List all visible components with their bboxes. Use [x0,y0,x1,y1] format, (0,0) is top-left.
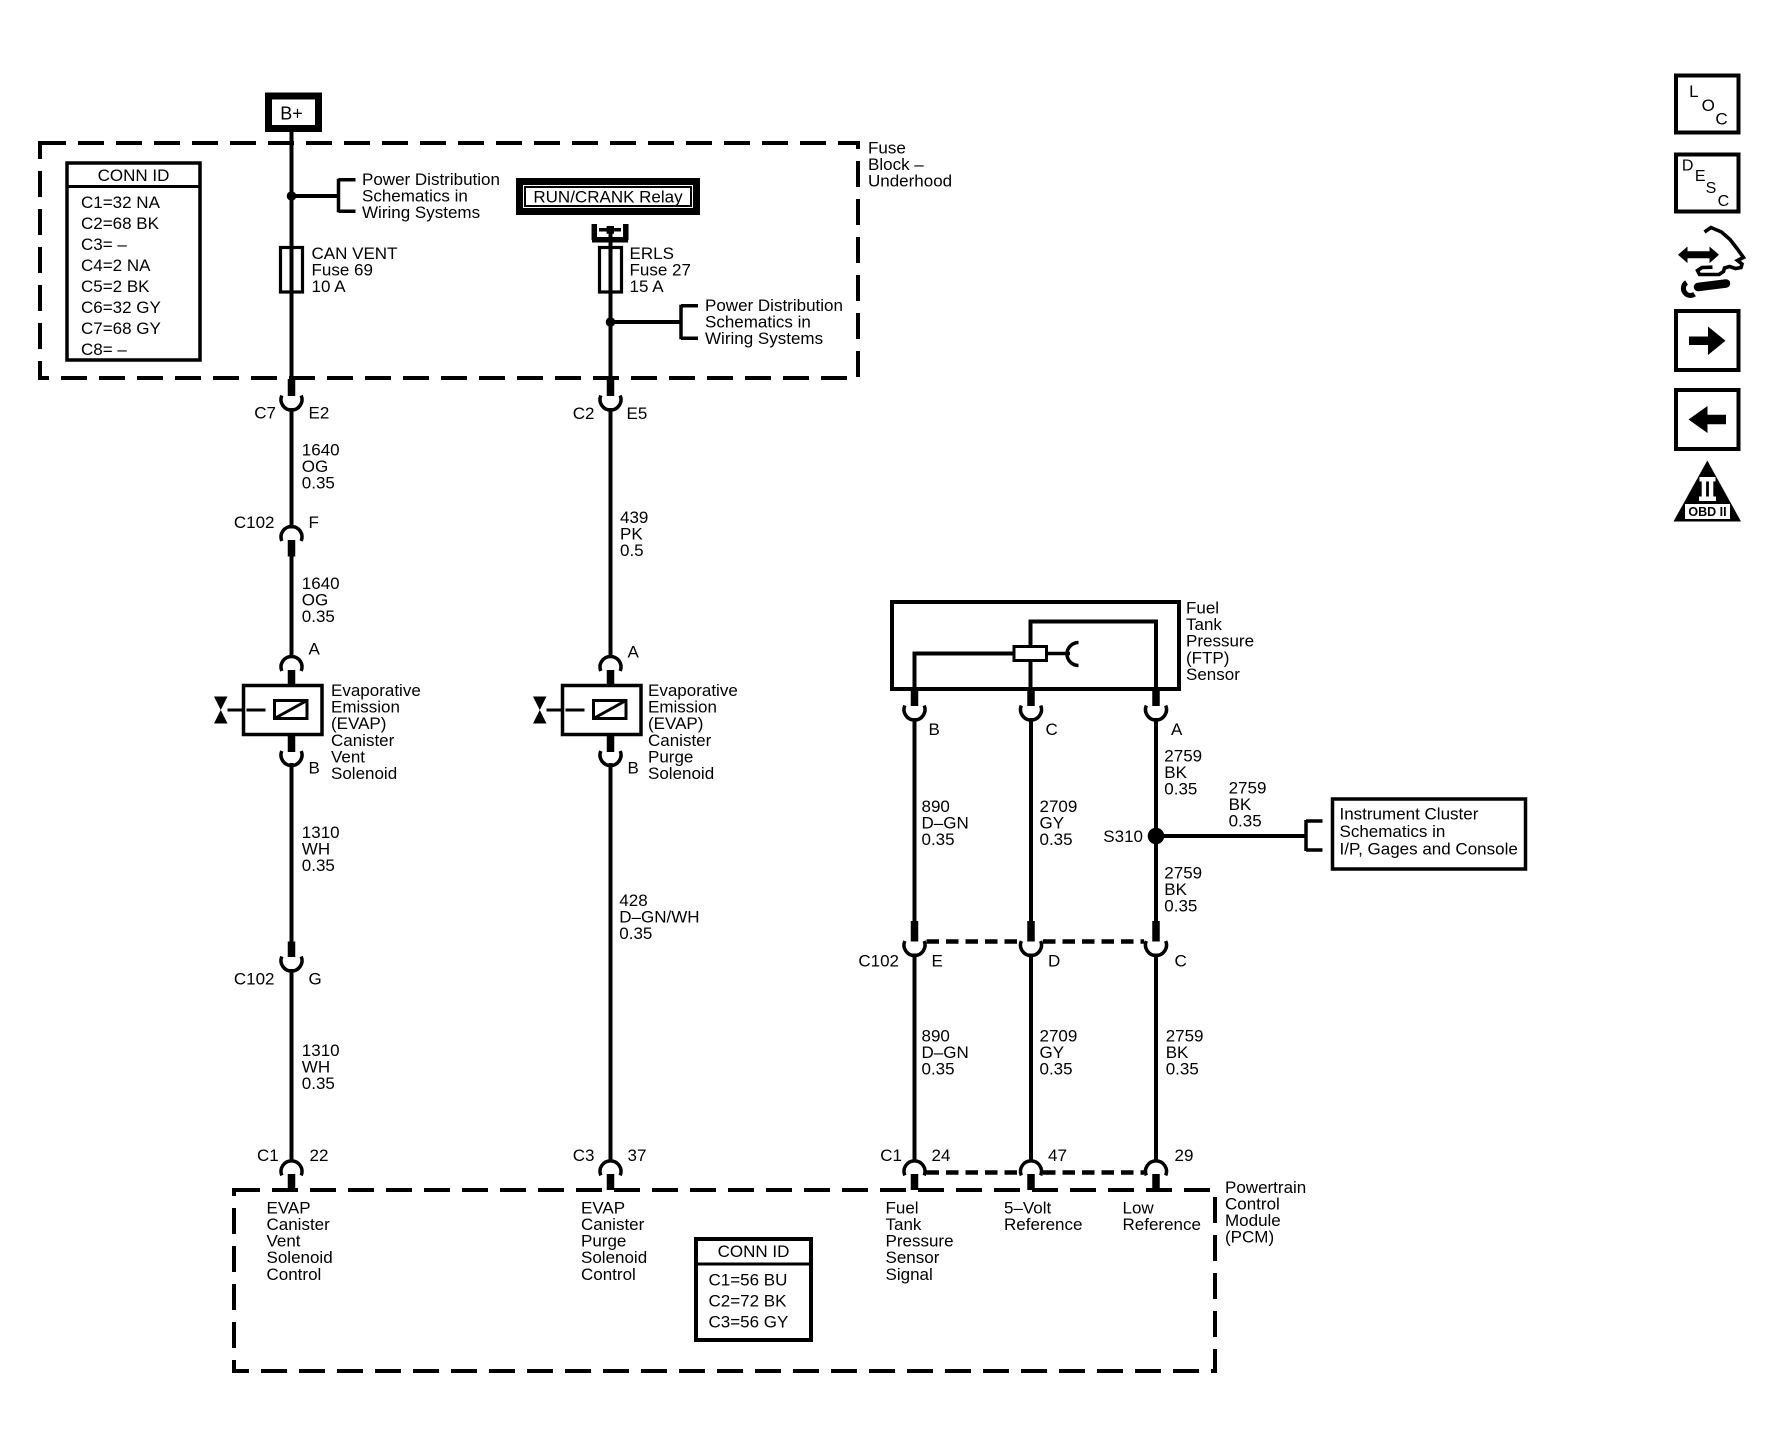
svg-text:C: C [1718,193,1730,210]
svg-text:CONN ID: CONN ID [718,1242,790,1261]
wire junction to bracket 2 [611,320,682,324]
svg-text:C5=2 BK: C5=2 BK [81,277,150,296]
fuse block underhood dashed box [40,143,858,378]
svg-text:C1=56 BU: C1=56 BU [709,1271,788,1290]
svg-text:0.35: 0.35 [302,474,335,493]
wire 890 D-GN 0.35 lower [913,954,917,1163]
svg-text:C7: C7 [254,404,276,423]
svg-text:C4=2 NA: C4=2 NA [81,256,151,275]
wire 1310 WH 0.35 lower [290,969,294,1162]
svg-text:B: B [628,759,639,778]
solenoid EVAP canister vent body [214,686,322,735]
icon back arrow box [1676,390,1739,449]
junction node ERLS tap [606,317,616,327]
CONN ID table PCM [696,1239,811,1340]
fuse F69 value label [312,244,398,296]
icon OBD II triangle [1674,461,1742,522]
svg-text:C2: C2 [573,404,595,423]
svg-text:Control: Control [581,1265,636,1284]
svg-text:C3= –: C3= – [81,235,127,254]
svg-text:(PCM): (PCM) [1225,1228,1274,1247]
note power distribution 1 [362,170,500,222]
solenoid EVAP canister purge - pin A [600,643,640,687]
fuse F69 CAN VENT 10A [281,248,303,293]
label C102 F [234,513,319,532]
svg-text:I/P, Gages and Console: I/P, Gages and Console [1340,839,1518,858]
svg-text:RUN/CRANK Relay: RUN/CRANK Relay [533,188,683,207]
wire B+ down to C7 [290,131,294,380]
svg-text:Reference: Reference [1123,1215,1201,1234]
fuse F27 ERLS 15A [600,248,622,293]
svg-text:0.35: 0.35 [1166,1060,1199,1079]
svg-text:0.35: 0.35 [302,1074,335,1093]
svg-text:24: 24 [932,1146,951,1165]
wire S310 to instrument cluster [1156,834,1306,838]
svg-text:0.35: 0.35 [302,607,335,626]
svg-text:C2=68 BK: C2=68 BK [81,214,160,233]
icon forward arrow box [1676,311,1739,370]
svg-text:S: S [1706,180,1717,197]
PCM function label FTP signal [886,1198,954,1283]
splice S310 [1148,828,1165,845]
note power distribution 2 [705,296,843,348]
fuse F27 value label [630,244,691,296]
connector C7 pin E2 [281,379,302,410]
wire 890 D-GN 0.35 upper [913,718,917,926]
svg-text:C3=56 GY: C3=56 GY [709,1313,789,1332]
solenoid EVAP canister purge body [533,686,641,735]
svg-text:47: 47 [1048,1146,1067,1165]
label C102 G [234,969,322,988]
wire 2759 BK 0.35 lower [1154,954,1158,1163]
svg-text:C: C [1046,720,1058,739]
svg-text:0.35: 0.35 [619,924,652,943]
PCM connector pin 22 [281,1161,302,1190]
svg-text:E5: E5 [627,404,648,423]
solenoid EVAP canister vent - pin B [281,735,320,778]
label C2 E5 [573,404,648,423]
PCM function label low ref [1123,1198,1201,1234]
svg-text:0.35: 0.35 [1164,897,1197,916]
svg-text:CONN ID: CONN ID [98,166,170,185]
relay contact symbol [592,224,628,240]
svg-text:15 A: 15 A [630,277,665,296]
svg-text:G: G [309,969,322,988]
svg-text:37: 37 [628,1146,647,1165]
wire 1640 OG 0.35 upper [290,408,294,529]
svg-text:C1=32 NA: C1=32 NA [81,193,161,212]
connector C102 pin E [904,921,925,956]
svg-text:0.35: 0.35 [1164,780,1197,799]
svg-text:Wiring Systems: Wiring Systems [362,203,480,222]
icon schematic tools [1678,228,1744,296]
wire 1640 OG 0.35 lower [290,556,294,658]
PCM function label EVAP vent [267,1198,333,1283]
wire 2759 BK 0.35 below S310 [1164,864,1202,916]
svg-text:22: 22 [310,1146,329,1165]
connector C102 pin D [1020,921,1041,956]
PCM connector pin 24 [904,1161,925,1190]
svg-text:D: D [1048,952,1060,971]
PCM connector pin 29 [1146,1161,1167,1190]
svg-text:0.35: 0.35 [1040,830,1073,849]
B+ battery terminal [265,93,322,133]
svg-text:C102: C102 [234,969,275,988]
label C7 E2 [254,404,329,423]
svg-text:0.35: 0.35 [922,1060,955,1079]
svg-text:C3: C3 [573,1146,595,1165]
svg-text:B+: B+ [280,104,303,124]
relay RUN/CRANK box [516,178,700,215]
PCM connector pin 47 [1020,1161,1041,1190]
svg-text:C2=72 BK: C2=72 BK [709,1292,788,1311]
svg-text:C6=32 GY: C6=32 GY [81,298,161,317]
svg-text:Solenoid: Solenoid [648,764,714,783]
connector C2 pin E5 [600,379,621,410]
solenoid EVAP canister purge - pin B [600,735,639,778]
connector C102 pin F [281,526,302,556]
svg-text:0.35: 0.35 [302,856,335,875]
FTP sensing element [1014,647,1047,661]
FTP internal wire to pin C [1029,661,1033,690]
wire relay to C2 [609,226,613,380]
FTP internal wire to pin A [1031,622,1157,690]
wire 439 PK 0.5 [609,408,613,658]
wire 428 D-GN/WH 0.35 [609,763,613,1162]
svg-text:B: B [929,720,940,739]
wire junction to bracket [292,194,339,198]
svg-text:A: A [309,640,321,659]
svg-text:E: E [932,952,943,971]
PCM powertrain control module dashed box [234,1190,1215,1371]
svg-text:C102: C102 [234,513,275,532]
svg-text:Sensor: Sensor [1186,665,1240,684]
svg-text:Reference: Reference [1004,1215,1082,1234]
solenoid EVAP canister vent - pin A [281,640,321,687]
wire 2759 BK 0.35 branch label [1229,779,1267,831]
wire 2759 BK 0.35 above S310 [1154,718,1158,926]
svg-text:D: D [1682,158,1694,175]
FTP pin B [904,689,940,739]
svg-text:OBD II: OBD II [1688,505,1726,519]
svg-text:Signal: Signal [886,1265,933,1284]
connector C102 pin C [1146,921,1167,956]
junction node at power distribution tap [287,191,297,201]
svg-text:0.5: 0.5 [620,541,644,560]
labels C102 E D C [858,952,1186,971]
connector C102 pin G [281,942,302,972]
icon DESC box [1676,155,1739,212]
bracket power distribution note 2 [681,305,698,340]
bracket power distribution note 1 [339,179,356,213]
svg-text:Wiring Systems: Wiring Systems [705,329,823,348]
bracket instrument cluster [1306,820,1323,851]
svg-text:C7=68 GY: C7=68 GY [81,319,161,338]
svg-text:Solenoid: Solenoid [331,764,397,783]
fuse block label [868,139,952,191]
svg-text:S310: S310 [1103,827,1143,846]
svg-text:Underhood: Underhood [868,172,952,191]
svg-text:O: O [1702,96,1715,115]
svg-text:B: B [309,759,320,778]
PCM function label 5V ref [1004,1198,1082,1234]
FTP pin C [1020,689,1057,739]
wire 2709 GY 0.35 upper [1029,718,1033,926]
instrument cluster reference box [1333,799,1526,869]
svg-text:C1: C1 [880,1146,902,1165]
PCM inline dashed link [927,1170,1020,1175]
FTP wiper arm [1047,652,1071,656]
svg-text:C: C [1175,952,1187,971]
svg-text:Control: Control [267,1265,322,1284]
wire 2709 GY 0.35 lower [1029,954,1033,1163]
PCM label [1225,1178,1306,1247]
svg-text:Schematics in: Schematics in [1340,822,1446,841]
svg-text:29: 29 [1175,1146,1194,1165]
PCM connector pin 37 [600,1161,621,1190]
svg-text:A: A [628,643,640,662]
labels PCM pins [257,1146,1193,1165]
icon LOC box [1676,76,1739,133]
svg-text:0.35: 0.35 [1040,1060,1073,1079]
svg-text:A: A [1171,720,1183,739]
CONN ID table fuse block [67,163,200,360]
svg-text:C: C [1715,110,1727,129]
svg-text:0.35: 0.35 [1229,812,1262,831]
PCM function label EVAP purge [581,1198,647,1283]
svg-text:0.35: 0.35 [922,830,955,849]
wire 1310 WH 0.35 upper [290,763,294,942]
svg-text:10 A: 10 A [312,277,347,296]
svg-text:E: E [1695,168,1706,185]
FTP internal wire to pin B [915,654,1015,690]
solenoid EVAP canister purge label [648,681,738,783]
sensor FTP fuel tank pressure box [892,602,1179,689]
FTP pin A [1146,689,1184,739]
svg-text:Instrument Cluster: Instrument Cluster [1340,805,1479,824]
svg-text:E2: E2 [309,404,330,423]
svg-text:F: F [309,513,319,532]
svg-text:L: L [1689,82,1698,101]
svg-text:C8= –: C8= – [81,340,127,359]
svg-text:C102: C102 [858,952,899,971]
FTP sensor label [1186,599,1254,684]
solenoid EVAP canister vent label [331,681,421,783]
C102 inline dashed link [927,939,1020,944]
svg-text:C1: C1 [257,1146,279,1165]
